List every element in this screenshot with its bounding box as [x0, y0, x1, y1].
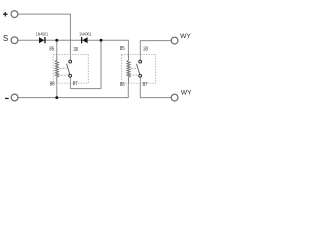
svg-text:WY: WY	[181, 90, 192, 96]
svg-text:30: 30	[143, 46, 148, 52]
svg-text:30: 30	[73, 47, 78, 53]
svg-text:1N4001: 1N4001	[79, 32, 92, 37]
svg-text:85: 85	[49, 47, 54, 53]
svg-text:86: 86	[120, 82, 125, 88]
svg-text:WY: WY	[180, 34, 191, 40]
svg-text:87: 87	[73, 81, 78, 87]
svg-text:86: 86	[50, 82, 55, 88]
svg-text:1N4001: 1N4001	[36, 32, 49, 37]
svg-text:85: 85	[120, 46, 125, 52]
svg-text:S: S	[3, 33, 8, 43]
svg-text:87: 87	[143, 82, 148, 88]
